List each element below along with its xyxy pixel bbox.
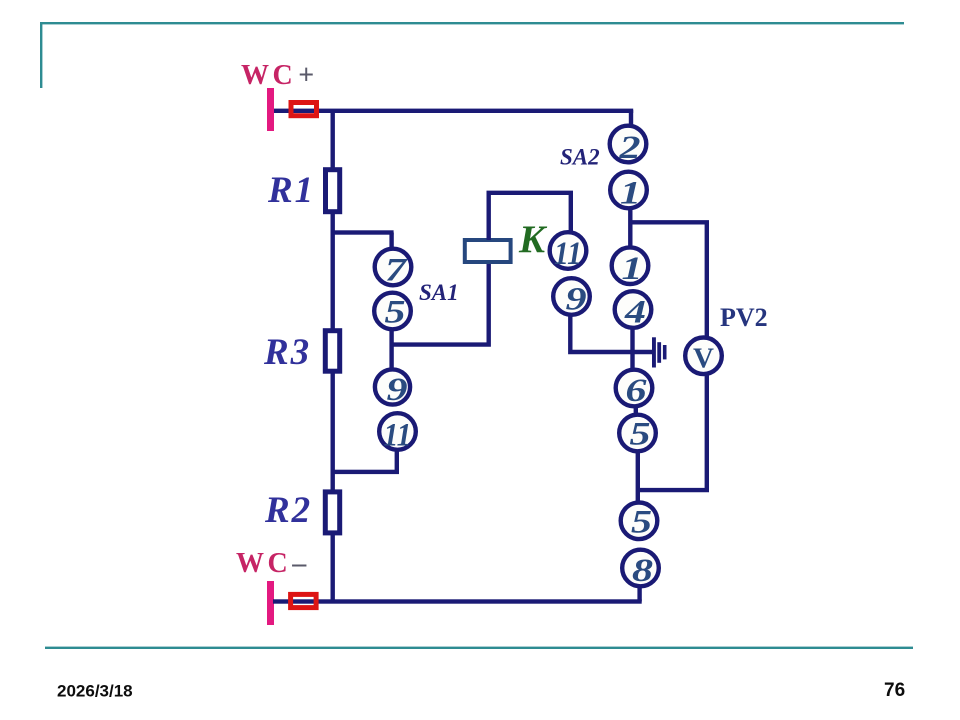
resistor R3 xyxy=(325,331,339,372)
svg-text:11: 11 xyxy=(554,236,582,272)
svg-text:R1: R1 xyxy=(267,170,315,211)
svg-text:11: 11 xyxy=(384,417,412,453)
svg-text:K: K xyxy=(518,218,548,261)
wire contact 1 down to contact 1b xyxy=(628,208,632,248)
wire contact 6 to contact 5 xyxy=(634,405,638,416)
wire branch to SA1 xyxy=(331,230,394,234)
fuse FU1 xyxy=(291,103,317,116)
switch SA2 contact 2 xyxy=(610,126,647,166)
wire bottom horizontal rail xyxy=(273,599,642,603)
wire SA1 contact 11 down xyxy=(395,450,399,473)
svg-text:WC–: WC– xyxy=(236,548,310,579)
svg-text:SA2: SA2 xyxy=(560,145,600,170)
switch SA1 contact 7 xyxy=(375,249,412,289)
relay coil K xyxy=(465,240,511,262)
svg-text:2: 2 xyxy=(618,130,640,166)
switch SA1 contact 9 xyxy=(375,369,410,407)
terminal bar WC+ xyxy=(267,88,274,131)
switch SA2 contact 4 xyxy=(615,291,652,330)
svg-text:8: 8 xyxy=(632,553,653,589)
switch contact 11 middle xyxy=(550,232,587,272)
switch SA2 contact 5b xyxy=(621,503,658,541)
wire SA1 node to relay K xyxy=(392,262,489,345)
switch contact 9 middle xyxy=(553,278,590,317)
resistor R1 xyxy=(326,170,340,212)
svg-text:SA1: SA1 xyxy=(419,280,459,305)
svg-text:V: V xyxy=(693,342,714,374)
svg-text:1: 1 xyxy=(622,251,643,287)
switch SA2 contact 8 xyxy=(622,550,659,590)
wire contact 4 to contact 6 xyxy=(630,328,634,371)
border frame bottom line xyxy=(45,647,913,649)
wire down to SA1 contact 7 xyxy=(389,233,393,251)
resistor R2 xyxy=(325,492,339,533)
wire branch from SA1 contact 11 xyxy=(331,470,400,474)
fuse FU2 xyxy=(291,594,317,607)
svg-text:9: 9 xyxy=(566,282,587,318)
switch SA2 contact 6 xyxy=(616,370,653,409)
border frame top line xyxy=(40,22,904,24)
svg-text:PV2: PV2 xyxy=(720,303,768,332)
switch SA2 contact 1 xyxy=(610,172,647,212)
wire contact 8 to bottom rail xyxy=(637,586,641,602)
wire top horizontal xyxy=(274,109,633,113)
wire relay K top loop to middle contact 11 xyxy=(489,193,571,240)
wire top rail corner down to contact 2 xyxy=(629,110,633,127)
wire SA1 contact 5 to contact 9 xyxy=(389,330,393,370)
ground symbol xyxy=(652,337,667,367)
switch SA1 contact 5 xyxy=(374,293,411,331)
wire branch to voltmeter bottom xyxy=(638,375,707,490)
svg-text:WC+: WC+ xyxy=(241,60,318,91)
terminal bar WC- xyxy=(267,581,274,625)
svg-text:R2: R2 xyxy=(264,490,312,531)
svg-text:2026/3/18: 2026/3/18 xyxy=(57,682,133,701)
wire R1 to R3 xyxy=(331,214,335,331)
wire contact 9 middle down to ground node xyxy=(570,314,652,352)
switch SA2 contact 1b xyxy=(612,247,649,287)
wire branch to voltmeter top xyxy=(631,222,707,337)
svg-text:4: 4 xyxy=(624,295,646,331)
wire R3 to R2 xyxy=(331,374,335,493)
voltmeter PV2 xyxy=(685,338,722,375)
svg-text:1: 1 xyxy=(620,176,641,212)
svg-text:R3: R3 xyxy=(263,332,311,373)
switch SA2 contact 5 xyxy=(619,415,656,453)
border frame left tick xyxy=(40,22,42,88)
svg-text:5: 5 xyxy=(630,417,651,453)
svg-text:6: 6 xyxy=(626,373,648,409)
svg-text:5: 5 xyxy=(631,504,652,540)
wire contact 5 down to contact 5b xyxy=(636,451,640,504)
svg-text:76: 76 xyxy=(884,680,905,701)
svg-text:7: 7 xyxy=(385,253,408,289)
wire top node to resistor R1 xyxy=(331,110,335,169)
wire R2 down to bottom rail xyxy=(331,535,335,603)
svg-text:9: 9 xyxy=(387,372,408,408)
switch SA1 contact 11 xyxy=(379,413,416,453)
svg-text:5: 5 xyxy=(385,295,406,331)
